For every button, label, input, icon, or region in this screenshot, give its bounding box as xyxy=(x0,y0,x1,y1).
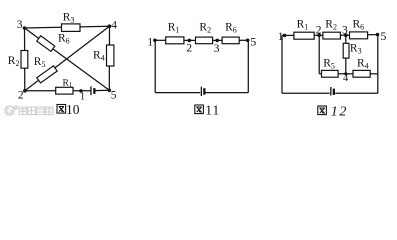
svg-text:2: 2 xyxy=(316,25,322,37)
wire left edge node3 to node2 xyxy=(24,28,26,91)
resistor R5 (tilted on diagonal 2-4) xyxy=(37,66,57,83)
wire vertical node3 to R3 xyxy=(345,35,347,43)
svg-text:12: 12 xyxy=(331,105,348,120)
wire R4 to right vertical xyxy=(370,73,378,75)
resistor R2 xyxy=(21,51,28,69)
resistor R2 (figure 12) xyxy=(323,32,341,39)
svg-text:10: 10 xyxy=(66,102,80,117)
node 3 xyxy=(23,26,27,30)
wire right vertical node5 down xyxy=(247,40,249,92)
svg-text:3: 3 xyxy=(342,25,348,37)
resistor R1 xyxy=(56,87,73,94)
node 1 xyxy=(79,89,83,93)
wire left vertical node1 down xyxy=(154,40,156,92)
battery (figure 10) xyxy=(90,86,95,95)
node 3 (figure 12) xyxy=(344,33,348,37)
wire vertical from node2 down to sub wire xyxy=(318,35,320,74)
resistor R3 xyxy=(62,24,81,32)
watermark characters xyxy=(19,107,53,115)
node 2 (figure 11) xyxy=(188,39,192,43)
battery (figure 12) xyxy=(330,87,335,96)
node 4 xyxy=(108,24,112,28)
resistor R6 (figure 11) xyxy=(222,37,239,44)
node 5 (figure 11) xyxy=(246,39,250,43)
wire R1 to R2 through node2 xyxy=(184,39,196,41)
node 4 (figure 12) xyxy=(344,72,347,75)
svg-text:1: 1 xyxy=(147,35,153,49)
wire right vertical node5 down to bottom xyxy=(377,35,379,94)
wire R3 to node 4 xyxy=(345,58,347,74)
caption glyph 图 (figure 11) xyxy=(195,105,204,114)
battery (figure 11) xyxy=(201,87,206,96)
wire bottom edge node2 to battery xyxy=(25,90,91,92)
node 5 (figure 12) xyxy=(376,33,380,37)
caption glyph 图 (figure 12) xyxy=(318,106,327,115)
resistor R6 (figure 12) xyxy=(350,32,368,39)
node 2 (figure 12) xyxy=(317,34,321,38)
svg-text:2: 2 xyxy=(186,42,192,54)
node 1 (figure 12) xyxy=(283,34,287,38)
wire R6 to node5 xyxy=(368,34,378,36)
wire right edge node4 to node5 xyxy=(108,26,110,90)
resistor R6 (tilted on diagonal 3-5) xyxy=(37,36,55,52)
svg-text:4: 4 xyxy=(343,73,349,84)
wire corner to node1 to R1 xyxy=(282,34,294,36)
wire R6 to node5 xyxy=(239,39,248,41)
wire bottom left to battery xyxy=(282,92,330,94)
svg-text:3: 3 xyxy=(17,19,23,31)
wire battery to bottom right xyxy=(205,92,248,94)
node 1 (figure 11) xyxy=(153,39,157,43)
svg-text:1: 1 xyxy=(80,92,85,103)
wire node1 to R1 xyxy=(155,39,166,41)
wire R5 to node4 xyxy=(338,73,353,75)
svg-text:11: 11 xyxy=(205,103,220,118)
wire R1 to R2 through node2 xyxy=(314,34,323,36)
svg-text:4: 4 xyxy=(111,19,117,31)
wire R2 to R6 through node3 xyxy=(213,39,223,41)
wire diagonal node2 to node4 xyxy=(25,26,110,91)
wire R2 to R6 through node3 xyxy=(340,34,349,36)
svg-text:5: 5 xyxy=(111,89,117,101)
wire left outer vertical xyxy=(281,35,283,93)
resistor R4 (figure 12) xyxy=(353,70,370,77)
svg-text:5: 5 xyxy=(380,29,386,43)
node 2 xyxy=(23,89,27,93)
svg-text:1: 1 xyxy=(278,29,284,43)
resistor R2 (figure 11) xyxy=(196,37,213,44)
svg-text:2: 2 xyxy=(18,89,24,101)
node 5 xyxy=(108,89,112,93)
wire battery to node5 xyxy=(95,89,110,91)
wire bottom left to battery xyxy=(155,92,200,94)
caption glyph 图 (figure 10) xyxy=(57,105,66,114)
watermark logo xyxy=(5,106,18,115)
wire sub horizontal left (node2 leg to R5) xyxy=(319,73,321,75)
resistor R4 xyxy=(107,45,114,66)
resistor R5 (figure 12) xyxy=(322,70,339,77)
node 3 (figure 11) xyxy=(215,39,219,43)
wire top edge node3 to node4 xyxy=(25,26,110,28)
wire battery to bottom right xyxy=(335,92,378,94)
resistor R1 (figure 12) xyxy=(294,32,314,39)
resistor R1 (figure 11) xyxy=(166,37,184,44)
svg-text:3: 3 xyxy=(214,43,220,55)
wire diagonal node3 to node5 xyxy=(25,28,110,90)
resistor R3 vertical (figure 12) xyxy=(343,43,349,58)
svg-text:5: 5 xyxy=(250,35,256,49)
